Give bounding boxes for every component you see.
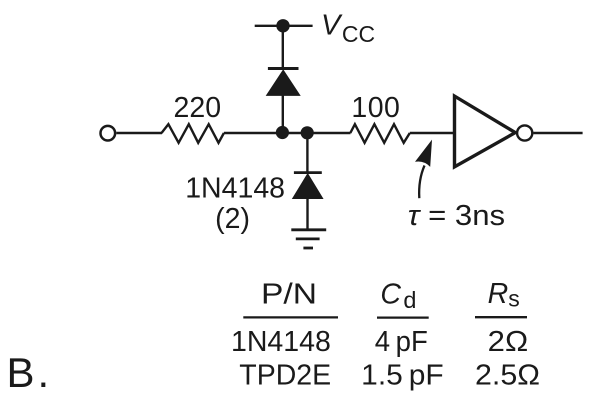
- arrow pointer head: [415, 140, 432, 167]
- header underline P/N: [243, 316, 338, 318]
- diode D2 (to ground): [294, 171, 322, 174]
- svg-text:100: 100: [351, 92, 400, 124]
- VCC rail: [255, 25, 313, 27]
- inverter bubble: [517, 125, 532, 140]
- wire dot to D2: [306, 133, 308, 173]
- VCC rail dot: [276, 19, 289, 32]
- svg-text:CC: CC: [342, 21, 375, 47]
- diode D1 (to VCC): [267, 70, 300, 95]
- header underline Cd: [377, 316, 429, 318]
- arrow pointer stem: [419, 166, 424, 199]
- svg-text:(2): (2): [215, 203, 250, 235]
- wire R2 to inverter: [410, 132, 455, 134]
- wire input to R1: [116, 132, 162, 134]
- svg-text:s: s: [508, 285, 520, 311]
- svg-text:TPD2E: TPD2E: [239, 360, 331, 392]
- svg-text:1N4148: 1N4148: [231, 326, 331, 358]
- svg-text:2.5Ω: 2.5Ω: [475, 360, 540, 392]
- svg-text:P/N: P/N: [261, 279, 317, 311]
- inverter U1: [455, 96, 516, 167]
- svg-text:2Ω: 2Ω: [488, 326, 529, 358]
- ground: [291, 228, 326, 231]
- svg-text:B.: B.: [7, 349, 53, 396]
- svg-text:220: 220: [174, 92, 222, 124]
- output wire: [534, 132, 583, 134]
- resistor R2 100: [350, 124, 410, 143]
- svg-text:d: d: [403, 287, 416, 313]
- wire R1 to R2: [224, 132, 351, 134]
- wire D2 to ground: [306, 199, 308, 230]
- svg-text:C: C: [380, 278, 401, 310]
- input terminal: [101, 126, 116, 141]
- svg-text:R: R: [488, 278, 509, 310]
- svg-text:1.5 pF: 1.5 pF: [361, 360, 444, 392]
- svg-text:1N4148: 1N4148: [185, 172, 285, 204]
- svg-text:V: V: [321, 10, 343, 42]
- svg-text:4 pF: 4 pF: [375, 326, 428, 358]
- wire dot to D1: [282, 95, 284, 133]
- resistor R1 220: [162, 124, 224, 143]
- wire D1 to VCC rail: [282, 26, 284, 69]
- svg-text:τ = 3ns: τ = 3ns: [408, 200, 505, 232]
- header underline Rs: [475, 316, 527, 318]
- junction dot right: [301, 126, 314, 139]
- junction dot left: [276, 126, 289, 139]
